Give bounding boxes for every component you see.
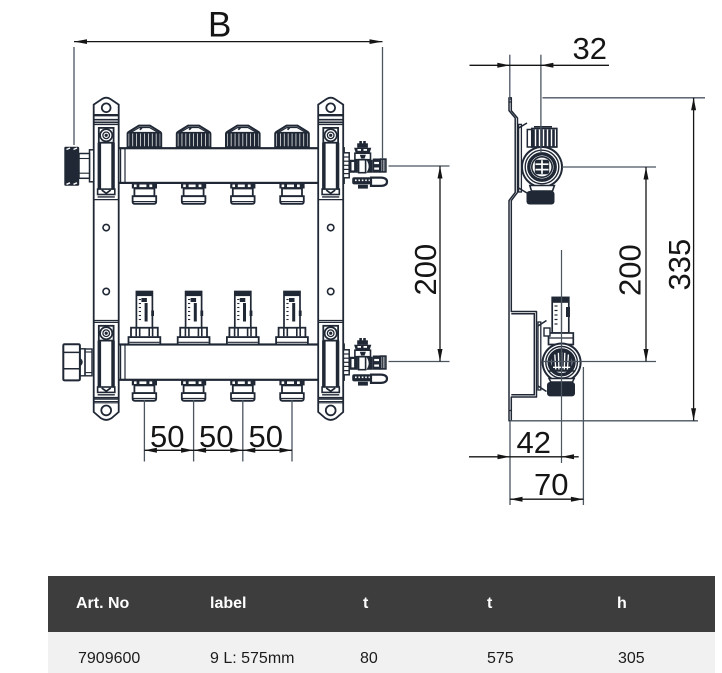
outlet 2 bottom bar — [181, 380, 206, 400]
upper valve body circle — [522, 147, 562, 187]
dimension 32 side view — [470, 31, 610, 152]
svg-text:42: 42 — [517, 425, 551, 460]
flow meter 4 — [276, 292, 308, 345]
thermostat cap 1 — [128, 126, 162, 148]
outlet 4 bottom bar — [279, 380, 304, 400]
outlet 4 top bar — [279, 184, 304, 204]
end valve top bar — [343, 141, 387, 189]
dimension 200 side view — [543, 167, 657, 362]
thermostat cap 4 — [275, 126, 309, 148]
dimension 50 x3 — [144, 400, 292, 462]
dimension 335 side view — [510, 98, 705, 421]
svg-text:200: 200 — [408, 244, 443, 296]
svg-text:200: 200 — [613, 244, 648, 296]
right wall bracket — [318, 98, 343, 420]
manifold top bar — [118, 148, 344, 183]
outlet 2 top bar — [181, 184, 206, 204]
lower rail face — [538, 321, 547, 392]
thermostat cap 2 — [177, 126, 211, 148]
upper valve ribbed cap — [527, 127, 557, 147]
clamp left bottom — [94, 321, 119, 398]
svg-text:B: B — [208, 6, 231, 45]
top left union nut (black) — [64, 147, 93, 186]
dimension 70 — [510, 367, 583, 505]
outlet 3 bottom bar — [230, 380, 255, 400]
upper rail face — [519, 123, 527, 193]
upper valve foot — [527, 186, 555, 205]
outlet 1 bottom bar — [132, 380, 157, 400]
flow meter 3 — [227, 292, 259, 345]
flow meter 2 — [178, 292, 210, 345]
svg-text:335: 335 — [662, 239, 697, 291]
lower valve body circle — [543, 344, 581, 382]
lower valve foot — [547, 379, 575, 397]
dimension 200 front view — [389, 166, 450, 362]
outlet 3 top bar — [230, 184, 255, 204]
clamp right bottom — [318, 321, 343, 398]
bracket rail profile — [509, 98, 537, 421]
svg-text:32: 32 — [573, 31, 607, 66]
dimension B — [74, 6, 383, 160]
dimension lines — [74, 6, 705, 506]
clamp left top — [94, 123, 119, 200]
svg-text:70: 70 — [534, 467, 568, 502]
left wall bracket — [94, 98, 119, 420]
lower flow meter tube — [544, 297, 573, 344]
outlet 1 top bar — [132, 184, 157, 204]
bottom left union nut (hex) — [63, 344, 92, 380]
manifold bottom bar — [118, 345, 344, 380]
side view — [509, 98, 581, 421]
dimension 42 — [469, 250, 579, 505]
table header — [48, 576, 715, 632]
thermostat cap 3 — [226, 126, 260, 148]
end valve bottom bar — [343, 338, 387, 386]
flow meter 1 — [129, 292, 161, 345]
clamp right top — [318, 123, 343, 200]
table data row — [48, 632, 715, 673]
